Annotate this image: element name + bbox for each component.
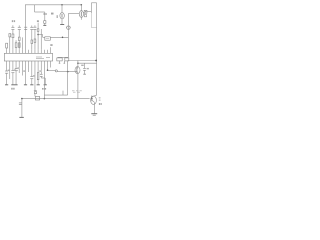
crystal below pin11	[37, 61, 39, 72]
capacitor C pin7 inline on bus drop	[24, 26, 27, 28]
terminal circle	[55, 70, 57, 72]
capacitor C pin3 column	[12, 25, 14, 27]
footer text speckles	[72, 91, 82, 92]
stub corner x63	[62, 91, 64, 95]
ground pin11	[37, 84, 40, 86]
label speckles near Q2	[81, 65, 89, 70]
resistor pin9	[31, 40, 33, 44]
ground pin9	[30, 84, 33, 86]
resistor R pin1	[6, 43, 8, 48]
label left cap	[11, 88, 14, 90]
connector pin square 2	[84, 15, 86, 17]
wire Q to connector	[83, 11, 86, 13]
lower bottom bus	[22, 98, 90, 100]
wire right rail x96.6	[96, 3, 98, 95]
wire y60.5 upper branch to rail	[68, 60, 97, 62]
component box X1	[45, 37, 51, 40]
label x57	[57, 15, 58, 18]
wire connector to frame	[86, 11, 91, 13]
IC bottom pins	[10, 61, 51, 85]
capacitor C pin9 column	[31, 26, 33, 28]
resistor pin4	[15, 43, 17, 48]
capacitor x44.8 with ground	[44, 21, 46, 24]
wire y63.2 lower branch to rail	[78, 62, 97, 64]
resistor R pin2 column	[9, 34, 11, 37]
component label speckles below IC	[8, 67, 42, 76]
wire column x41	[40, 29, 42, 50]
transistor Q top-right circle	[79, 11, 83, 18]
label C3	[12, 20, 15, 22]
IC top pins	[7, 37, 51, 54]
ground pin1	[5, 84, 8, 86]
ground pin3	[11, 84, 14, 86]
ground left bottom	[19, 116, 23, 118]
cap right of Q1	[99, 97, 101, 99]
wire vertical x68.4 net	[67, 13, 69, 57]
wire x67.7 long vertical	[67, 61, 69, 95]
capacitor below pin4	[15, 61, 17, 68]
wire pin11 with junction	[37, 20, 39, 22]
wire bus to transistor T62	[61, 5, 63, 13]
IC U1 label	[36, 57, 50, 58]
resistor pin10	[34, 39, 36, 42]
small boxes pair under IC right	[57, 58, 62, 61]
capacitor mid-bottom	[34, 89, 37, 91]
transistor Q2	[77, 61, 79, 68]
wire top-right frame left	[90, 3, 92, 13]
connector pin square 1	[84, 10, 87, 13]
wire top bus	[25, 4, 81, 6]
capacitor below pin3	[12, 61, 14, 70]
ground crystal	[44, 84, 47, 86]
wire bus to Q top at x81	[80, 5, 82, 11]
capacitor below pin9	[31, 61, 33, 76]
wire pin10 long down	[34, 61, 36, 90]
inline circle component on x68.4	[67, 26, 70, 29]
capacitor col x41.25	[40, 73, 43, 75]
capacitor below pin1	[6, 61, 8, 71]
ground Q1	[91, 113, 97, 115]
label near x44	[44, 13, 54, 15]
label pin15	[50, 44, 52, 46]
stub arrows below boxes	[59, 61, 61, 64]
wire T62 branch horizontal	[68, 13, 79, 15]
capacitor C pin5 column	[18, 25, 20, 27]
capacitor C pin10 column	[34, 25, 36, 27]
wire y57.3	[58, 56, 69, 58]
node junction on bus at x81	[81, 4, 83, 6]
transistor Q1 bottom right	[91, 96, 97, 104]
transistor T62 circle	[60, 13, 64, 19]
wire pin6 tall	[21, 37, 23, 49]
label Q1	[99, 103, 102, 105]
left bottom column	[21, 98, 23, 100]
node junction on bus at x62	[61, 4, 63, 6]
inline box on bus	[35, 96, 39, 100]
resistor pin3	[12, 34, 14, 38]
wire top-right frame top	[91, 2, 96, 4]
wire left bus drop	[25, 5, 27, 54]
wire below transistor	[61, 19, 63, 24]
ground pin4	[14, 84, 17, 86]
IC U1 body	[4, 53, 52, 61]
upper bottom line y95	[44, 94, 67, 96]
ground bar under T62	[60, 24, 64, 26]
wire terminal to Q2 base	[57, 71, 77, 73]
resistor pin5	[18, 37, 20, 40]
label L1	[42, 88, 46, 90]
capacitor on branch x84.5	[84, 63, 86, 68]
wire pin14 to terminal	[47, 61, 49, 70]
wire from X1 right	[50, 36, 68, 38]
wire pin13 long to bottom bus	[43, 61, 45, 99]
